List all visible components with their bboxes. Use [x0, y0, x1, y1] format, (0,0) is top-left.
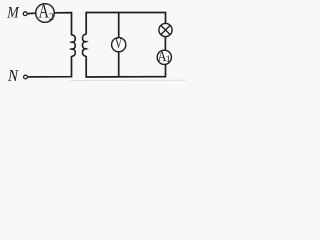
terminal N [24, 75, 28, 79]
wire secondary bottom side [86, 56, 165, 77]
svg-text:V: V [115, 36, 123, 52]
svg-text:M: M [6, 5, 20, 22]
wire lamp to ammeter A1 [164, 37, 166, 50]
primary winding L1 [72, 35, 76, 56]
faint scan artifact line [70, 79, 186, 81]
svg-text:1: 1 [166, 54, 171, 65]
svg-text:N: N [7, 66, 19, 85]
wire A2 to top-left corner and down primary side [55, 13, 72, 36]
secondary winding L2 [82, 34, 86, 56]
svg-text:2: 2 [49, 12, 54, 23]
wire voltmeter branch upper [118, 13, 120, 38]
ammeter A2 [36, 1, 55, 23]
wire primary coil bottom to corner and left to N [28, 56, 72, 77]
ammeter A1 [157, 49, 171, 65]
svg-text:A: A [39, 1, 50, 23]
wire M terminal to ammeter A2 [28, 12, 36, 14]
lamp EL [159, 23, 172, 36]
terminal M [23, 12, 27, 16]
wire secondary top side [86, 13, 165, 35]
wire voltmeter branch lower [118, 52, 120, 77]
voltmeter V [112, 36, 126, 52]
